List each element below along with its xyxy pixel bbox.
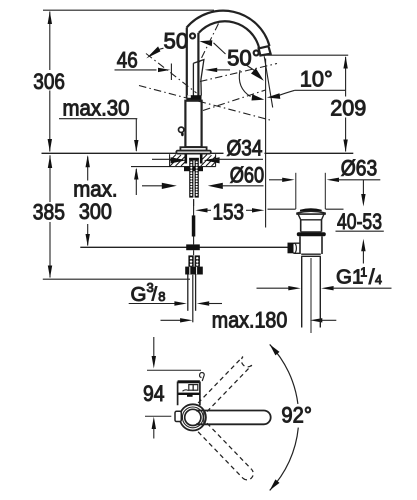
- svg-text:385: 385: [33, 199, 65, 224]
- riser pipe left edge: [186, 28, 188, 98]
- funnel taper: [298, 214, 324, 220]
- washer lines: [301, 253, 321, 255]
- dimension 46: [115, 47, 231, 80]
- label G 3/8 with dimension arrows: [129, 280, 222, 306]
- dashed swivel capsule lower: [198, 423, 253, 480]
- dimension max.300: [73, 155, 117, 246]
- svg-text:209: 209: [330, 96, 366, 121]
- counter section hatch left block: [170, 154, 187, 166]
- dashed swivel capsule upper: [198, 357, 252, 412]
- svg-text:G: G: [131, 283, 147, 306]
- svg-text:/: /: [152, 285, 158, 306]
- dimension Ø34: [152, 136, 265, 164]
- top reference line: [43, 9, 214, 11]
- supply nut block: [185, 267, 203, 275]
- dimension 40-53: [336, 180, 384, 264]
- plan knob tab: [175, 411, 181, 421]
- svg-text:Ø34: Ø34: [227, 136, 263, 161]
- svg-text:50°: 50°: [164, 28, 198, 53]
- svg-text:46: 46: [117, 47, 138, 72]
- flange rim: [297, 211, 325, 214]
- threaded shank (twin studs): [184, 155, 203, 198]
- svg-text:/: /: [369, 266, 375, 289]
- svg-text:40-53: 40-53: [337, 209, 382, 234]
- dash-dot line E: [139, 86, 270, 121]
- svg-text:Ø60: Ø60: [230, 163, 265, 188]
- plan body rings: [180, 404, 206, 430]
- dimension Ø63: [269, 156, 380, 210]
- tailpipe: [301, 256, 303, 327]
- outlet level line to 209 dimension: [263, 54, 348, 56]
- svg-text:max.180: max.180: [212, 308, 287, 333]
- dimension Ø60: [142, 163, 264, 190]
- pull rod dark segment: [192, 215, 196, 236]
- svg-text:10°: 10°: [300, 67, 333, 92]
- lever pivot black band: [186, 95, 201, 100]
- aerator outlet block: [259, 46, 271, 55]
- label 50 deg left: [146, 28, 197, 58]
- label G1 1/4 with dimension arrows: [257, 265, 392, 290]
- svg-text:max.: max.: [73, 176, 117, 201]
- faucet body: [185, 101, 201, 148]
- lever handle (neutral): [192, 63, 194, 95]
- label 10 deg with leader: [267, 67, 346, 99]
- rod below shank: [193, 199, 195, 216]
- rod coupler block: [186, 244, 200, 250]
- dimension 385: [33, 155, 65, 278]
- dimension 153: [195, 200, 264, 225]
- dimension max.180: [161, 308, 337, 333]
- svg-text:1: 1: [360, 265, 367, 279]
- body side pin: [179, 127, 184, 132]
- dimension 209: [330, 56, 366, 152]
- dimension 94: [143, 337, 201, 439]
- lower body: [300, 236, 322, 254]
- counter underside line: [131, 166, 216, 168]
- supply hoses: [187, 275, 189, 311]
- label 50 deg right with leader to riser: [200, 40, 265, 100]
- counter section hatch right block: [201, 154, 216, 166]
- outlet axis tilted line (10 deg): [264, 56, 273, 107]
- plug cap black band: [300, 208, 322, 211]
- label max.30 with leader and arrows: [59, 96, 139, 196]
- dash-dot spout line D1: [200, 64, 277, 82]
- body collar: [180, 147, 206, 150]
- svg-text:300: 300: [79, 199, 112, 224]
- plan spout capsule: [196, 411, 271, 425]
- 92 deg arc with arrows: [270, 344, 312, 490]
- svg-text:92°: 92°: [281, 403, 312, 428]
- faucet centerline above 153: [193, 200, 195, 207]
- svg-text:8: 8: [158, 289, 165, 304]
- svg-text:max.30: max.30: [63, 96, 130, 121]
- counter deck line: [42, 152, 354, 154]
- svg-text:4: 4: [375, 273, 382, 287]
- dash-dot lever line B: [199, 24, 219, 64]
- svg-text:94: 94: [143, 381, 165, 406]
- bottom reference line (385): [43, 278, 190, 280]
- svg-text:Ø63: Ø63: [341, 156, 378, 181]
- dash-dot spout line D2: [203, 90, 266, 111]
- riser pipe right edge: [197, 33, 199, 96]
- pull rod horizontal line (hose end reference): [80, 246, 287, 248]
- tailpipe centerline: [310, 258, 312, 333]
- supply thread block: [188, 255, 200, 266]
- spout outer arc: [187, 11, 270, 46]
- body upper: [301, 220, 322, 232]
- ball rod housing: [294, 243, 300, 253]
- escutcheon base plate: [176, 151, 210, 154]
- dimension 306: [33, 11, 65, 152]
- basin line at drain: [268, 208, 296, 210]
- vertical reference line from outlet: [265, 59, 267, 228]
- svg-text:306: 306: [33, 69, 65, 94]
- svg-text:153: 153: [213, 200, 245, 225]
- dash-dot lever line A: [146, 54, 197, 94]
- spout inner arc: [199, 21, 259, 48]
- rod knob: [288, 243, 294, 254]
- drain assembly: [288, 208, 326, 333]
- svg-text:50°: 50°: [227, 46, 261, 71]
- plan lever (top view): [178, 373, 205, 406]
- nut band: [297, 232, 326, 236]
